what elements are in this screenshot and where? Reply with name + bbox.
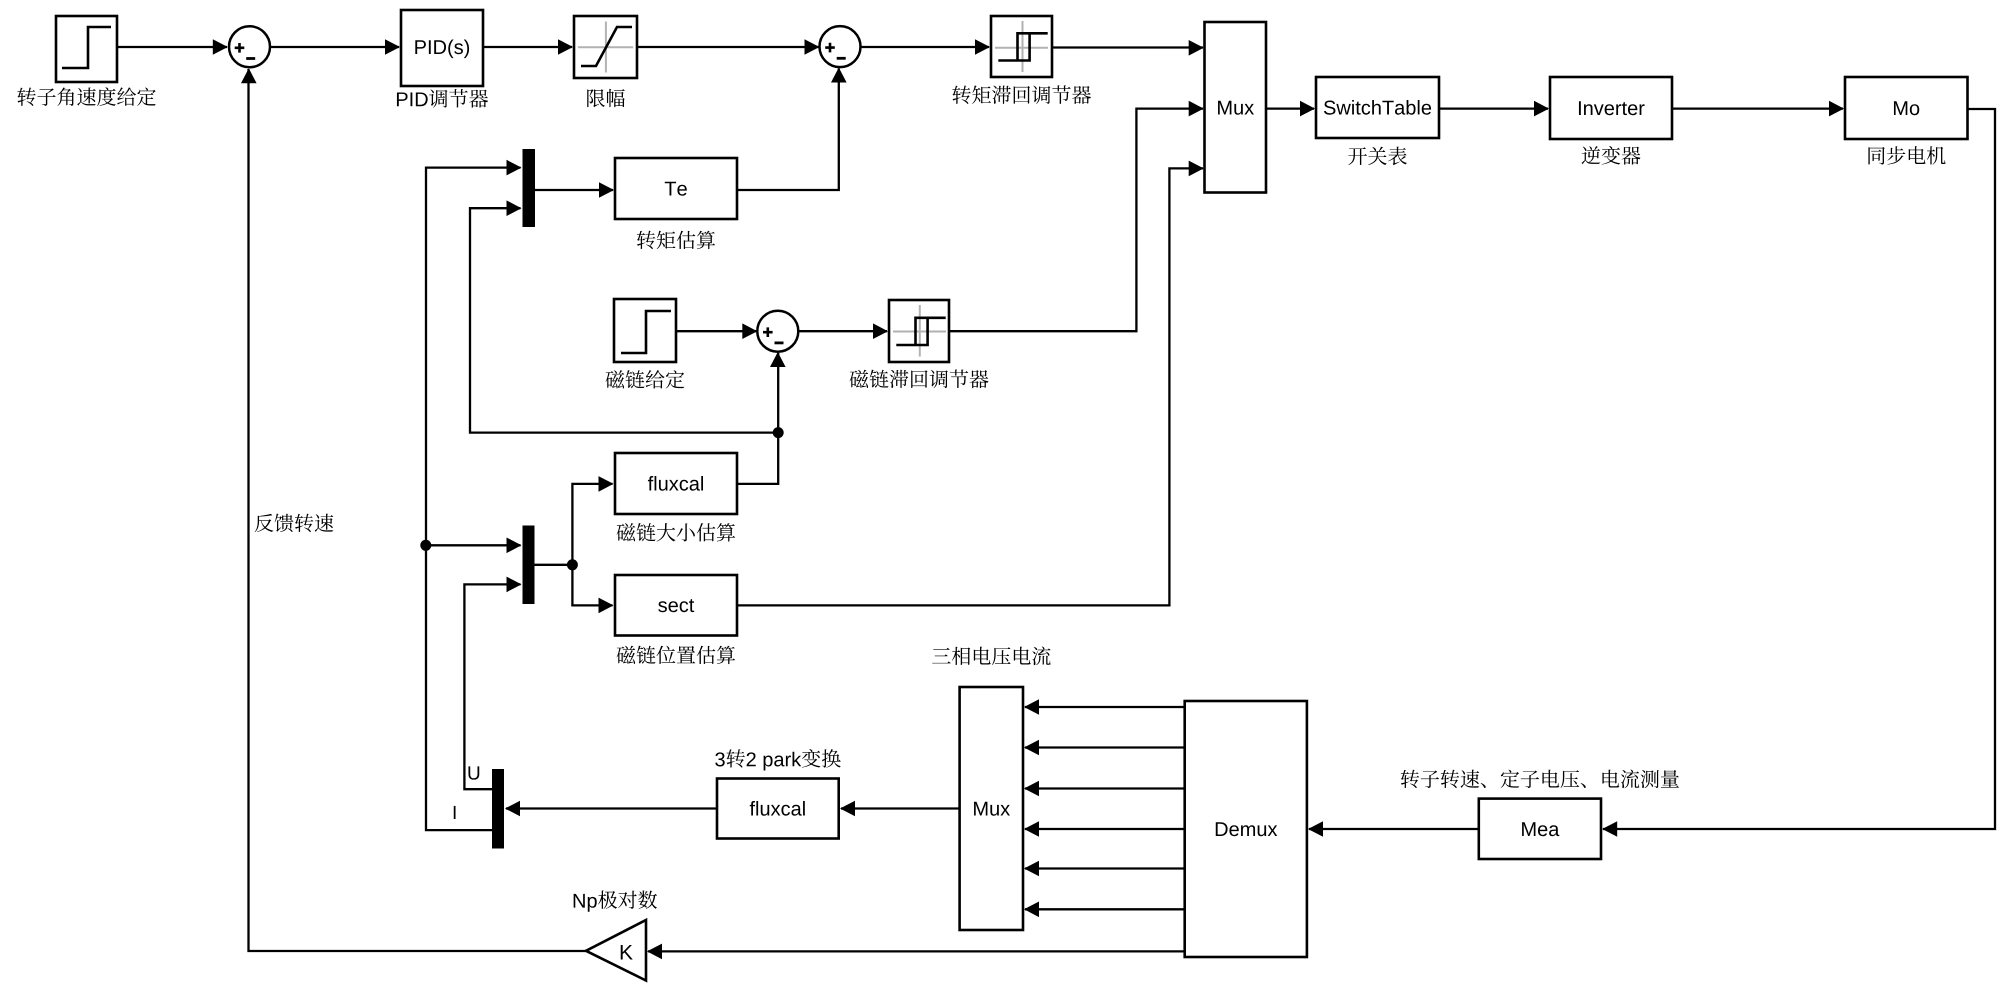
block PID(s) PID调节器 [401, 10, 483, 86]
block fluxcal 磁链大小估算 [615, 453, 737, 514]
block Demux [1185, 701, 1307, 957]
block SwitchTable 开关表 [1316, 77, 1439, 138]
wire I output to Mux2 input 1 and Mux3 input 1 [426, 168, 521, 831]
block sect 磁链位置估算 [615, 575, 737, 636]
wire park fluxcal to UI demux bar [506, 807, 717, 809]
relay block 转矩滞回调节器 [991, 16, 1052, 77]
label 反馈转速 [255, 514, 334, 532]
relay block 磁链滞回调节器 [889, 300, 949, 362]
mux bar Mux3 [523, 526, 535, 605]
wire saturation to sum2 [637, 46, 819, 48]
Mux block Mux1 [1205, 22, 1267, 193]
demux bar UI [492, 769, 504, 849]
wire Inverter to Mo [1672, 107, 1843, 109]
label 3转2 park变换 [715, 752, 724, 766]
label 磁链给定 [606, 370, 685, 388]
node flux feedback junction [773, 427, 784, 438]
label U [468, 766, 479, 779]
label I [454, 806, 456, 819]
label 磁链滞回调节器 [850, 370, 989, 389]
gain triangle K Np极对数 [586, 920, 646, 981]
label 转子转速、定子电压、电流测量 [1401, 770, 1679, 789]
wire SwitchTable to Inverter [1439, 107, 1548, 109]
label 开关表 [1348, 147, 1407, 166]
source block step 转子角速度给定 [56, 16, 117, 82]
wire step2 to sum3 [676, 330, 756, 332]
wire PID to saturation [483, 46, 572, 48]
wire fluxcal output to sum3 and flux feedback node [737, 353, 778, 484]
label 逆变器 [1582, 146, 1641, 165]
label 三相电压电流 [932, 647, 1051, 666]
wire sect to Mux1 input 3 [737, 168, 1203, 605]
mux bar Mux2 [523, 149, 536, 227]
wire U output to Mux3 input 2 [464, 584, 520, 789]
label 转矩估算 [637, 231, 715, 249]
wire Mux1 to SwitchTable [1266, 107, 1314, 109]
label 同步电机 [1868, 146, 1945, 164]
label 转矩滞回调节器 [952, 85, 1091, 104]
wire Mux2 to Te [535, 189, 613, 191]
label 磁链大小估算 [617, 523, 736, 541]
source block step 磁链给定 [614, 299, 676, 362]
block Inverter 逆变器 [1550, 77, 1672, 139]
wire sum3 to relay2 [798, 330, 887, 332]
block Mea 测量 [1479, 799, 1601, 859]
sum junction S3 [757, 311, 798, 352]
wire Demux speed output to gain K [648, 950, 1185, 952]
sum junction S1 [229, 26, 270, 67]
block Mo 同步电机 [1845, 77, 1968, 139]
wire Mea to Demux [1309, 828, 1479, 830]
wire relay2 to Mux1 input 2 [949, 109, 1203, 332]
label 磁链位置估算 [617, 646, 736, 664]
wire Mo to Mea measurement [1603, 109, 1995, 829]
wire K to sum1 feedback [249, 69, 587, 951]
label PID调节器 [397, 92, 428, 106]
wire node to fluxcal input [572, 484, 612, 565]
sum junction S2 [820, 26, 861, 67]
Mux block Mux4 [960, 687, 1023, 930]
wire relay1 to Mux input 1 [1052, 46, 1203, 48]
wire Mux3 output node [535, 564, 573, 566]
saturation block 限幅 [574, 16, 637, 78]
wire node to sect input [572, 565, 612, 606]
wire Te to sum2 bottom [737, 69, 839, 191]
wire sum1 to PID [270, 46, 399, 48]
wire junction to Mux3 input 1 [426, 544, 521, 546]
block park fluxcal 3转2变换 [717, 779, 839, 839]
wire Mux4 to park fluxcal [841, 807, 960, 809]
label Np极对数 [574, 894, 597, 912]
label 限幅 [587, 89, 625, 107]
wire flux node to Mux2 input 2 [470, 208, 778, 432]
node I line junction [420, 540, 431, 551]
wire sum2 to relay1 [861, 46, 990, 48]
wire step1 to sum1 [117, 46, 227, 48]
label 转子角速度给定 [17, 87, 155, 106]
block Te 转矩估算 [615, 158, 737, 219]
wires Demux outputs to Mux4 inputs [1025, 706, 1185, 708]
node Mux3 output junction [567, 559, 578, 570]
